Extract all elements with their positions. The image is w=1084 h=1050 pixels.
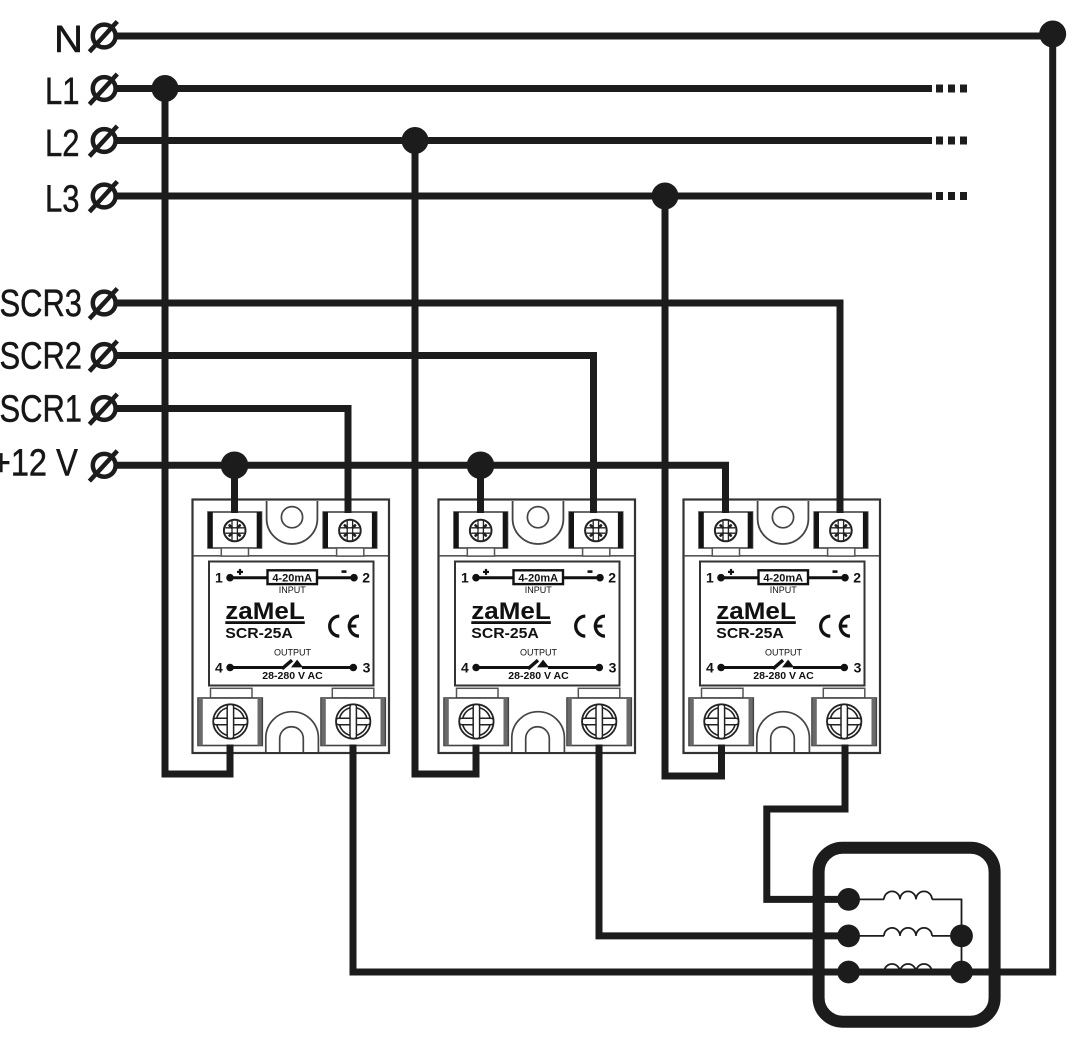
svg-text:SCR3: SCR3 <box>0 283 82 325</box>
svg-text:L3: L3 <box>45 179 80 221</box>
svg-text:SCR1: SCR1 <box>0 389 82 431</box>
svg-text:SCR2: SCR2 <box>0 336 82 378</box>
svg-text:+12 V: +12 V <box>0 443 78 485</box>
svg-text:N: N <box>54 19 83 61</box>
svg-text:L1: L1 <box>45 71 80 113</box>
svg-text:L2: L2 <box>45 123 80 165</box>
